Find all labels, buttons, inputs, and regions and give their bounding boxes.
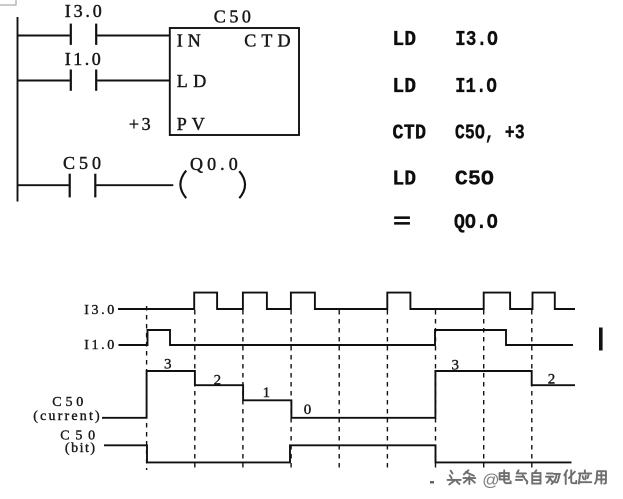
svg-text:0: 0 xyxy=(304,402,312,418)
svg-text:@: @ xyxy=(482,471,499,490)
svg-text:3: 3 xyxy=(452,357,460,373)
svg-text:I1.O: I1.O xyxy=(455,76,497,99)
svg-text:C50: C50 xyxy=(63,153,101,173)
svg-text:C50: C50 xyxy=(214,7,251,27)
svg-text:LD: LD xyxy=(392,29,416,52)
svg-text:(current): (current) xyxy=(33,409,100,424)
svg-text:I3.O: I3.O xyxy=(455,29,498,52)
svg-text:CTD: CTD xyxy=(244,30,290,50)
svg-text:3: 3 xyxy=(164,357,172,373)
svg-text:C5O: C5O xyxy=(455,169,494,192)
svg-text:2: 2 xyxy=(548,372,556,388)
svg-text:PV: PV xyxy=(177,114,205,134)
svg-text:LD: LD xyxy=(392,76,416,99)
svg-text:Q0.0: Q0.0 xyxy=(190,154,238,174)
svg-text:QO.O: QO.O xyxy=(454,212,498,235)
svg-text:+3: +3 xyxy=(129,114,151,134)
svg-text:LD: LD xyxy=(392,169,416,192)
svg-text:I3.0: I3.0 xyxy=(65,1,102,21)
svg-text:I1.0: I1.0 xyxy=(65,49,101,69)
svg-text:1: 1 xyxy=(263,385,271,401)
svg-text:I3.0: I3.0 xyxy=(84,303,114,318)
svg-text:=: = xyxy=(393,212,411,235)
svg-text:LD: LD xyxy=(177,71,207,91)
svg-text:C50: C50 xyxy=(52,395,83,410)
svg-text:C5O, +3: C5O, +3 xyxy=(455,122,525,145)
svg-text:(bit): (bit) xyxy=(65,441,96,456)
svg-text:IN: IN xyxy=(177,30,201,50)
svg-text:I1.0: I1.0 xyxy=(84,338,114,353)
svg-text:2: 2 xyxy=(214,373,222,389)
svg-text:CTD: CTD xyxy=(392,122,426,145)
